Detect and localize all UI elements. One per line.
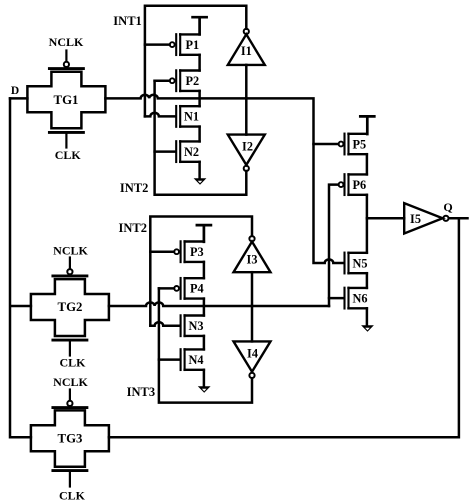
svg-text:P4: P4 — [190, 282, 204, 296]
inverter I1 body — [228, 29, 265, 99]
svg-text:N5: N5 — [353, 257, 368, 271]
svg-text:I3: I3 — [247, 252, 258, 266]
inverter I5 body — [404, 203, 448, 233]
wire: P6 drain to N5 drain (output node) — [366, 195, 369, 253]
svg-text:N1: N1 — [184, 110, 199, 124]
svg-text:NCLK: NCLK — [53, 375, 88, 389]
inverter I4 body — [234, 306, 271, 378]
svg-text:INT3: INT3 — [127, 385, 155, 399]
svg-text:N6: N6 — [353, 291, 368, 305]
pmos P3 — [150, 241, 204, 262]
ground (first stage) — [194, 162, 207, 185]
nmos N4 — [159, 349, 204, 370]
feedback wire INT2: from P2 gate down to N2 gate and I2 output — [155, 81, 247, 195]
wire: D input to TG1 — [10, 97, 27, 100]
pmos P2 — [155, 70, 200, 91]
svg-text:CLK: CLK — [55, 148, 82, 162]
svg-text:TG1: TG1 — [54, 93, 79, 107]
svg-text:P3: P3 — [190, 245, 204, 259]
svg-text:INT2: INT2 — [119, 221, 147, 235]
nmos N6 — [329, 288, 367, 309]
ground (output stage) — [361, 308, 374, 332]
svg-text:P5: P5 — [353, 137, 367, 151]
svg-text:INT1: INT1 — [113, 14, 141, 28]
nmos N1 with gate lead hop over INT2 line — [145, 106, 200, 127]
svg-text:CLK: CLK — [59, 355, 86, 369]
wire: left rail from D down to TG2 and TG3 inputs — [10, 98, 31, 437]
svg-text:I2: I2 — [242, 140, 253, 154]
feedback wire INT3: from P4 gate down to N4 gate and I4 output — [159, 288, 252, 402]
wire: Q feedback down the right side to TG3 output — [109, 218, 459, 437]
svg-text:P2: P2 — [186, 74, 200, 88]
wire: P1 drain to P2 source — [198, 55, 201, 71]
pmos P6 with gate line down to stage-2 output node — [329, 174, 367, 306]
svg-text:P6: P6 — [353, 178, 367, 192]
wire: N1 source to N2 drain — [198, 127, 201, 142]
svg-text:N2: N2 — [184, 145, 199, 159]
svg-text:Q: Q — [443, 200, 452, 214]
vdd supply (output stage) — [360, 116, 374, 134]
pmos P1 — [145, 34, 200, 55]
svg-text:TG2: TG2 — [58, 300, 83, 314]
svg-text:P1: P1 — [186, 38, 200, 52]
wire: N5 source to N6 drain — [366, 273, 369, 288]
svg-text:D: D — [11, 85, 19, 97]
vdd supply (first stage) — [193, 17, 207, 34]
vdd supply (second stage) — [197, 225, 211, 242]
svg-text:I4: I4 — [247, 347, 258, 361]
transmission gate TG2 body — [31, 258, 109, 356]
svg-text:CLK: CLK — [59, 488, 86, 502]
pmos P4 — [159, 278, 204, 299]
wire: I5 output Q — [449, 217, 468, 220]
svg-text:TG3: TG3 — [58, 431, 83, 445]
wire: P3 drain to P4 source — [203, 262, 206, 278]
wire: P2 drain to N1 drain (storage node crossing) — [198, 91, 201, 106]
nmos N5 — [345, 253, 367, 274]
svg-text:I5: I5 — [410, 212, 421, 226]
wire: P4 drain to N3 drain (storage node crossing) — [203, 299, 206, 316]
wire: output node to I5 input — [367, 217, 404, 220]
pmos P5 — [314, 134, 367, 155]
wire: TG2 output node with hops, to P4/N3 drains, I3/I4 inputs, over to P6/N6 gate line — [109, 302, 329, 306]
ground (second stage) — [198, 370, 211, 393]
svg-text:INT2: INT2 — [120, 181, 148, 195]
svg-text:N3: N3 — [189, 319, 204, 333]
nmos N2 — [155, 141, 200, 162]
nmos N3 with gate lead hop over INT3 line — [150, 315, 204, 336]
feedback wire INT2 (second stage): I3 output over the top to P3 gate and down to N3 gate — [150, 217, 252, 326]
transmission gate TG3 body — [31, 390, 109, 487]
wire: N3 source to N4 drain — [203, 336, 206, 350]
inverter I3 body — [234, 236, 271, 306]
wire: P5 drain to P6 source — [366, 154, 369, 174]
wire: TG1 output node with hops over feedback lines, to P2/N1 drains, I1/I2 inputs and down to N5 gate — [105, 95, 343, 263]
svg-text:N4: N4 — [189, 353, 204, 367]
svg-text:I1: I1 — [241, 44, 252, 58]
svg-text:NCLK: NCLK — [53, 243, 88, 257]
feedback wire INT1: I1 output over the top to P1 gate and down to N1 gate — [145, 6, 246, 117]
transmission gate TG1 body — [27, 51, 105, 148]
inverter I2 body — [228, 98, 265, 171]
svg-text:NCLK: NCLK — [49, 35, 84, 49]
